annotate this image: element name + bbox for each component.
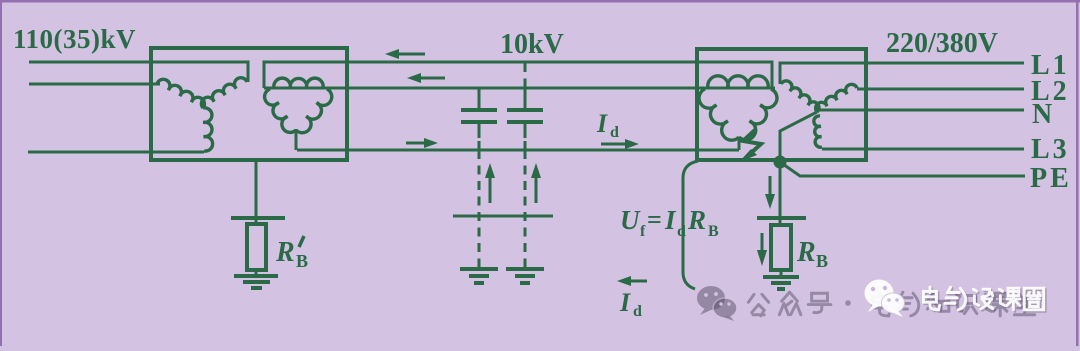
T1 LV delta winding top scallops bbox=[274, 78, 323, 88]
T1 HV wye winding bottom arm bbox=[203, 108, 213, 151]
up arrow capacitive current 1 bbox=[489, 172, 492, 203]
svg-text:10kV: 10kV bbox=[500, 29, 564, 60]
svg-text:I: I bbox=[664, 205, 677, 235]
T1 LV delta winding left side bbox=[265, 89, 296, 132]
earth bar above RB bbox=[757, 216, 806, 220]
svg-text:I: I bbox=[619, 288, 631, 317]
capacitor C2 lower wire bbox=[524, 124, 527, 138]
wire: 110kV phase B to T1 star left arm bbox=[29, 83, 160, 86]
wire: 110kV phase C to T1 star bottom arm bbox=[28, 151, 204, 154]
down arrow fault current beside RB bbox=[761, 233, 764, 251]
capacitor C2 stem from 10kV top line bbox=[524, 63, 527, 80]
wire: T1 delta apex down to 10kV bottom line bbox=[295, 129, 298, 150]
T1 HV wye winding right arm bbox=[201, 78, 247, 108]
svg-text:B: B bbox=[816, 251, 828, 271]
watermark: grey text 公众号·电气知识课堂 bbox=[748, 294, 768, 315]
T1 LV delta winding right side bbox=[296, 89, 332, 133]
resistor R'B bbox=[247, 224, 266, 270]
node: neutral junction dot bbox=[774, 156, 787, 169]
wire: T2 delta apex down to 10kV bottom line bbox=[738, 137, 741, 150]
wire: bar to RB bbox=[779, 218, 782, 225]
svg-text:U: U bbox=[620, 205, 641, 235]
svg-text:R: R bbox=[687, 205, 706, 235]
wire: star arm up and L1 line out bbox=[780, 63, 1024, 84]
wire: N line out from star centre bbox=[819, 109, 1024, 112]
T2 LV star winding upper-right arm bbox=[816, 84, 857, 112]
wire: 10kV middle line through both delta tops bbox=[264, 87, 775, 90]
earth bar above R'B bbox=[231, 216, 285, 220]
transformer T2 box bbox=[697, 49, 866, 160]
ground symbol under C2 bbox=[506, 269, 544, 283]
wire: node down to RB bbox=[779, 166, 782, 216]
bar joining capacitor earth wires bbox=[453, 215, 553, 218]
T2 LV delta winding right side bbox=[739, 89, 777, 140]
arrow: current on 10kV line1 leftward bbox=[392, 53, 425, 56]
capacitor C1 dashed earth wire bbox=[478, 150, 481, 268]
ground symbol under C1 bbox=[460, 269, 498, 283]
arrow: current on 10kV line2 leftward bbox=[414, 77, 445, 80]
T2 LV delta winding left side bbox=[699, 89, 739, 140]
T2 LV delta winding top scallops bbox=[708, 76, 768, 88]
T2 LV star winding bottom arm bbox=[814, 116, 822, 147]
fault lightning bolt to frame bbox=[743, 129, 761, 153]
capacitor C1 stem bbox=[478, 88, 481, 108]
svg-text:B: B bbox=[708, 223, 719, 240]
wire: T1 delta left corner up to 10kV top line bbox=[264, 62, 772, 88]
page frame left border bbox=[0, 0, 2, 346]
svg-text:B: B bbox=[296, 251, 308, 271]
svg-text:L3: L3 bbox=[1031, 134, 1070, 165]
wire: T1 neutral down to R'B bbox=[255, 160, 258, 224]
transformer T1 box bbox=[151, 48, 347, 160]
watermark: white WeChat icon bbox=[865, 280, 894, 307]
wire: star neutral diagonal down to node bbox=[780, 112, 817, 161]
svg-text:d: d bbox=[677, 223, 686, 240]
svg-text:I: I bbox=[596, 109, 608, 138]
capacitor C2 dashed earth wire bbox=[524, 150, 527, 268]
capacitor C2 plates bbox=[507, 110, 543, 122]
svg-text:f: f bbox=[640, 223, 646, 240]
wire: 110kV phase A with corner down to T1 star right arm bbox=[29, 62, 248, 82]
down arrow fault current into RB branch bbox=[769, 176, 772, 196]
wire: L2 line out bbox=[857, 88, 1024, 91]
page frame top border bbox=[0, 0, 1080, 3]
ground symbol under RB bbox=[763, 277, 799, 289]
ground symbol under R'B bbox=[234, 276, 278, 288]
wire: 10kV bottom line to T2 delta apex bbox=[297, 149, 739, 152]
up arrow capacitive current 2 bbox=[535, 172, 538, 203]
svg-text:d: d bbox=[610, 124, 619, 141]
watermark: white text 电气设课圈 bbox=[925, 289, 941, 312]
wire: RB to ground bbox=[780, 270, 783, 276]
wire: PE line out bbox=[780, 162, 1025, 176]
svg-text:N: N bbox=[1032, 99, 1055, 130]
svg-text:d: d bbox=[633, 303, 642, 320]
svg-text:110(35)kV: 110(35)kV bbox=[13, 24, 136, 54]
capacitor C1 plates bbox=[461, 110, 497, 122]
page frame right border bbox=[1076, 0, 1079, 346]
arrow: Id rightward bbox=[601, 143, 628, 146]
brace for Uf bbox=[683, 161, 698, 289]
svg-text:=: = bbox=[647, 205, 662, 234]
resistor RB bbox=[771, 225, 791, 270]
svg-text:PE: PE bbox=[1030, 163, 1072, 194]
wire: L3 line out bbox=[822, 148, 1024, 151]
capacitor C1 lower wire bbox=[478, 124, 481, 138]
svg-text:R: R bbox=[796, 237, 816, 268]
T2 LV star winding upper-left arm bbox=[781, 81, 819, 112]
watermark: grey WeChat icon bubbles bbox=[697, 286, 725, 315]
svg-text:220/380V: 220/380V bbox=[886, 28, 998, 59]
arrow: Id return leftward bbox=[624, 280, 647, 283]
T1 HV wye winding left arm bbox=[157, 79, 204, 108]
svg-text:R: R bbox=[275, 237, 295, 268]
wire: R'B to ground bbox=[255, 270, 258, 276]
arrow: current on 10kV line3 rightward bbox=[406, 142, 430, 145]
